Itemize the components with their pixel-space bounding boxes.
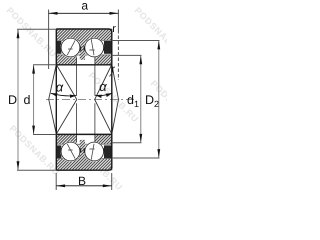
contact line upper-left (corner to left pressure vertex) [49, 65, 57, 100]
cage block left of ball bottom-left [61, 148, 63, 152]
dimension D2 extension top [112, 40, 160, 42]
dimension d1 line [140, 55, 142, 142]
bearing top face line [56, 29, 112, 33]
ball top-right contact mark [91, 39, 94, 55]
svg-text:D: D [8, 93, 17, 107]
outer ring bottom center rib overlay [79, 140, 86, 161]
cage block right of ball top-right [102, 46, 104, 50]
inner ring bottom band [56, 134, 112, 144]
ball bottom-right center tick [89, 148, 94, 150]
face gap dark blob right (top) [104, 41, 112, 54]
dimension D2 line [158, 41, 160, 159]
cage block right of ball top-left [79, 46, 81, 50]
ball top-right [85, 38, 104, 57]
dimension d1 extension top [112, 54, 142, 56]
raceway halo bottom-left [60, 141, 80, 161]
dimension D line [17, 29, 19, 170]
cage block right of ball bottom-right [102, 148, 104, 152]
dimension a extension line left [48, 10, 50, 70]
svg-text:r: r [112, 23, 116, 35]
outer ring bottom band [56, 159, 112, 170]
svg-text:PODSNAB.RU: PODSNAB.RU [8, 123, 62, 177]
face gap dark blob left (bottom) [57, 145, 62, 158]
svg-text:α: α [56, 80, 64, 95]
ball bottom-left center tick [68, 149, 73, 151]
dimension D extension bottom [17, 169, 56, 171]
r leader stroke [110, 73, 113, 77]
inner ring split gap (bottom) [77, 135, 95, 144]
ball bottom-left [61, 142, 80, 161]
ball top-left contact mark [67, 40, 75, 55]
bearing left face line [55, 29, 57, 170]
raceway halo top-right [84, 37, 104, 57]
svg-text:r: r [112, 64, 116, 76]
inner ring split line left [76, 57, 78, 95]
svg-text:PODSNAB.RU: PODSNAB.RU [133, 5, 167, 59]
svg-text:a: a [81, 0, 88, 12]
alpha arc arrow left [51, 93, 77, 96]
ball top-left center tick [68, 48, 73, 50]
dimension d line [33, 65, 35, 135]
inner ring split line left bottom [76, 103, 78, 142]
svg-text:B: B [78, 174, 86, 188]
dimension B extension left [55, 173, 57, 190]
dimension a arrows [49, 12, 58, 15]
svg-text:d1: d1 [127, 93, 139, 109]
cage block left of ball top-left [61, 46, 63, 50]
cage block right of ball bottom-left [79, 148, 81, 152]
svg-text:d: d [24, 93, 31, 107]
dimension B line [56, 185, 111, 187]
watermark PODSNAB.RU tiles [5, 5, 203, 192]
bearing right face line [111, 31, 113, 168]
outer ring top center rib overlay [79, 39, 86, 60]
contact line upper-left inner [56, 65, 77, 100]
inner ring split line right bottom [94, 103, 96, 142]
raceway halo top-left [60, 37, 80, 57]
dimension a extension line right [117, 10, 119, 31]
contact line upper-right inner [95, 65, 112, 100]
ball bottom-left contact mark [67, 144, 75, 159]
dimension d extension bottom [33, 134, 56, 136]
dimension D2 extension bottom [112, 157, 160, 159]
inner ring top band [56, 55, 112, 65]
ball bottom-right [85, 142, 104, 161]
contact line upper-right (corner to right pressure vertex) [112, 65, 119, 100]
contact line lower-right [112, 99, 119, 134]
bore line bottom [56, 133, 112, 135]
svg-text:α: α [99, 79, 107, 94]
svg-text:D2: D2 [145, 93, 159, 109]
bore line top [56, 64, 112, 66]
cage block left of ball top-right [84, 46, 86, 50]
ball top-left [61, 38, 80, 57]
dimension B extension right [111, 173, 113, 190]
dimension D extension top [17, 28, 56, 30]
outer ring bottom center rib [79, 140, 86, 161]
outer ring top center rib [79, 39, 86, 60]
contact line lower-left inner [56, 100, 77, 135]
alpha arc arrow right [95, 93, 112, 96]
contact line lower-right inner [95, 100, 112, 135]
ball bottom-right contact mark [91, 144, 94, 160]
bearing bottom face line [56, 167, 112, 171]
ball top-right center tick [89, 49, 94, 51]
dimension d extension top [33, 64, 56, 66]
raceway halo bottom-right [84, 141, 104, 161]
outer ring top band [56, 29, 112, 40]
cage block left of ball bottom-right [84, 148, 86, 152]
dimension a line [49, 12, 119, 14]
inner ring split line right [94, 57, 96, 95]
face gap dark blob left (top) [57, 41, 62, 54]
face gap dark blob right (bottom) [104, 145, 112, 158]
dimension d1 extension bottom [112, 142, 142, 144]
contact line lower-left [49, 99, 57, 134]
inner ring split gap (top) [77, 56, 95, 65]
center axis line (dash-dot) [46, 99, 134, 101]
